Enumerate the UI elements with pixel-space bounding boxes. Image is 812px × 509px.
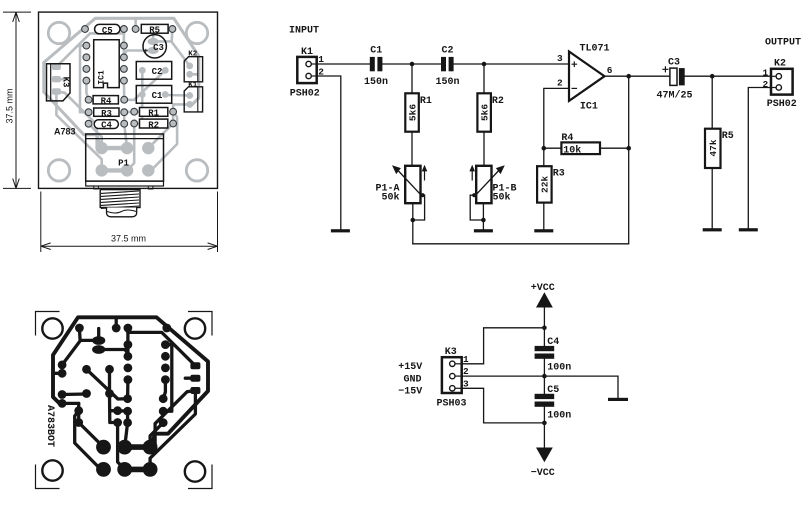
svg-text:22k: 22k — [539, 176, 550, 193]
resistor R1 outline (PCB) — [140, 108, 168, 119]
svg-text:K3: K3 — [445, 347, 457, 358]
capacitor C3 4u7 electrolytic — [657, 57, 693, 101]
wire K3 pin1 to +rail — [462, 328, 545, 364]
svg-text:TL071: TL071 — [580, 44, 610, 55]
capacitor C5 outline (stadium) — [95, 24, 120, 36]
svg-text:47M/25: 47M/25 — [657, 90, 693, 102]
wire P1-A bottom to feedback — [412, 203, 414, 244]
PCB bottom copper view A783BOT — [36, 312, 213, 489]
wire C2 to op-amp pin3 — [454, 63, 569, 65]
capacitor C1 150n — [364, 46, 388, 88]
corner brackets — [36, 312, 60, 336]
svg-text:K1: K1 — [188, 82, 198, 90]
svg-text:C4: C4 — [101, 121, 112, 131]
svg-text:10k: 10k — [563, 145, 581, 157]
svg-text:C1: C1 — [152, 91, 163, 101]
ground (R3) — [534, 229, 553, 232]
capacitor C3 outline (circle) — [143, 35, 166, 58]
potentiometer P1-B 50k — [469, 165, 516, 220]
svg-text:150n: 150n — [364, 77, 388, 88]
svg-text:R3: R3 — [553, 169, 565, 180]
svg-text:A783BOT: A783BOT — [44, 405, 55, 447]
svg-text:2: 2 — [763, 79, 769, 90]
svg-text:PSH03: PSH03 — [437, 399, 467, 410]
wire K3 pin3 to -rail — [462, 388, 545, 423]
node P1-A junction — [411, 218, 416, 223]
wire R1 to P1-A — [411, 132, 413, 166]
svg-text:+15V: +15V — [398, 362, 422, 373]
svg-text:3: 3 — [557, 53, 563, 64]
svg-text:OUTPUT: OUTPUT — [765, 38, 801, 49]
svg-text:1: 1 — [763, 67, 769, 78]
svg-text:P1: P1 — [118, 159, 129, 169]
connector K1 — [290, 47, 325, 100]
svg-text:47k: 47k — [708, 139, 719, 156]
P1 threaded bushing and shaft — [100, 190, 140, 217]
svg-text:6: 6 — [607, 65, 613, 76]
svg-text:C1: C1 — [370, 46, 382, 57]
IC1 outline (DIP8) — [94, 40, 120, 88]
dimension: 37.5 mm vertical (left) — [3, 12, 31, 188]
svg-text:C4: C4 — [547, 337, 559, 348]
connector K3 outline (PCB) — [47, 64, 71, 101]
feedback wire bottom — [413, 76, 629, 244]
wire R5 to ground — [711, 168, 713, 228]
svg-text:A783: A783 — [54, 127, 76, 137]
connector K2 — [763, 59, 797, 110]
svg-text:C5: C5 — [547, 385, 559, 396]
svg-text:R5: R5 — [722, 131, 734, 142]
ground (P1-B) — [474, 229, 493, 232]
svg-text:R3: R3 — [101, 109, 112, 119]
node -rail junction — [542, 421, 547, 426]
ground (K2) — [739, 228, 758, 231]
resistor R3 22k — [537, 148, 565, 202]
VCC rail wire — [543, 307, 545, 346]
ground (K1) — [331, 229, 350, 232]
svg-text:150n: 150n — [436, 77, 460, 88]
wire op-amp output — [605, 75, 670, 77]
svg-text:K2: K2 — [774, 59, 786, 70]
svg-text:IC1: IC1 — [580, 101, 598, 112]
dimension: 37.5 mm horizontal (bottom) — [41, 192, 218, 253]
resistor R2 outline (PCB) — [140, 119, 168, 130]
svg-text:K1: K1 — [301, 47, 313, 58]
wire op-amp pin2 to R4/R3 node — [544, 88, 569, 148]
wire K2 pin2 to ground — [748, 88, 771, 229]
capacitor C2 outline (PCB) — [136, 62, 171, 80]
svg-text:50k: 50k — [382, 191, 400, 203]
mounting hole rings (bottom) — [42, 318, 62, 338]
svg-text:PSH02: PSH02 — [290, 89, 320, 100]
resistor R3 outline (PCB) — [94, 108, 119, 119]
svg-text:C3: C3 — [668, 57, 680, 68]
wire K1 pin1 to C1 — [317, 63, 370, 65]
svg-text:C3: C3 — [153, 43, 164, 53]
-VCC arrow — [536, 448, 553, 463]
connector K2 outline (PCB) — [184, 50, 202, 82]
svg-text:C2: C2 — [442, 46, 454, 57]
resistor R4 outline (PCB) — [93, 96, 118, 107]
resistor R4 10k — [544, 133, 629, 156]
node mid junction — [542, 374, 547, 379]
svg-text:C2: C2 — [152, 67, 163, 77]
bottom copper traces and pads — [53, 317, 208, 447]
svg-text:100n: 100n — [547, 363, 571, 374]
wire P1-B bottom to ground — [482, 203, 484, 229]
node P1-B junction — [481, 218, 486, 223]
svg-text:50k: 50k — [493, 191, 511, 203]
svg-text:+: + — [144, 46, 149, 55]
capacitor C1 outline (PCB) — [136, 86, 171, 104]
svg-text:37.5 mm: 37.5 mm — [5, 88, 15, 123]
potentiometer P1-A 50k — [376, 165, 428, 220]
node R4 left — [542, 146, 547, 151]
svg-text:R4: R4 — [561, 133, 573, 144]
capacitor C4 outline (PCB) — [94, 120, 118, 131]
+VCC arrow — [536, 292, 553, 307]
svg-text:K2: K2 — [188, 50, 198, 58]
potentiometer P1 outline (PCB) — [86, 134, 164, 189]
svg-text:−15V: −15V — [398, 387, 422, 398]
node A (junction C1/R1) — [410, 62, 415, 67]
connector K3 — [437, 347, 470, 410]
wire R2 to P1-B — [483, 132, 485, 166]
svg-text:5k6: 5k6 — [480, 104, 491, 121]
wire C1 to C2 — [382, 63, 441, 65]
node R5 junction — [710, 74, 715, 79]
capacitor C4 100n — [535, 337, 572, 373]
svg-text:5k6: 5k6 — [408, 104, 419, 121]
capacitor C2 150n — [436, 46, 460, 88]
svg-text:+VCC: +VCC — [531, 283, 555, 294]
svg-text:R2: R2 — [492, 96, 504, 107]
svg-text:GND: GND — [404, 374, 422, 385]
svg-text:37.5 mm: 37.5 mm — [111, 234, 146, 244]
connector K1 outline (PCB) — [184, 82, 202, 112]
wire K3 pin2 to mid node and ground — [462, 376, 618, 398]
svg-text:R1: R1 — [420, 96, 432, 107]
svg-text:INPUT: INPUT — [289, 26, 319, 37]
node R4 right — [626, 146, 631, 151]
op-amp IC1 TL071 — [557, 44, 613, 113]
svg-text:R4: R4 — [101, 97, 112, 107]
mounting holes (gray rings) — [48, 22, 207, 181]
resistor R5 outline — [141, 24, 168, 35]
ground (power mid) — [608, 398, 628, 401]
svg-text:−VCC: −VCC — [531, 468, 555, 479]
capacitor C5 100n — [535, 385, 572, 421]
svg-text:C5: C5 — [102, 26, 113, 36]
svg-text:R1: R1 — [148, 109, 159, 119]
node output junction — [626, 74, 631, 79]
svg-text:PSH02: PSH02 — [767, 99, 797, 110]
wire K1 pin2 to ground — [317, 76, 341, 229]
svg-text:100n: 100n — [547, 410, 571, 421]
resistor R2 5k6 — [477, 64, 504, 132]
node B (junction C2/R2) — [482, 62, 487, 67]
svg-text:R2: R2 — [148, 120, 159, 130]
ground (R5) — [703, 228, 722, 231]
svg-text:IC1: IC1 — [97, 70, 106, 85]
svg-text:K3: K3 — [61, 77, 71, 88]
resistor R1 5k6 — [405, 64, 432, 132]
wire C3 to K2 — [685, 75, 771, 77]
copper traces (top view, gray) — [44, 18, 199, 176]
PCB top component view: board outline A783 — [39, 12, 218, 188]
node +rail junction — [542, 326, 547, 331]
svg-text:2: 2 — [557, 77, 563, 88]
wire R3 to ground — [543, 203, 545, 230]
resistor R5 47k — [705, 76, 734, 168]
